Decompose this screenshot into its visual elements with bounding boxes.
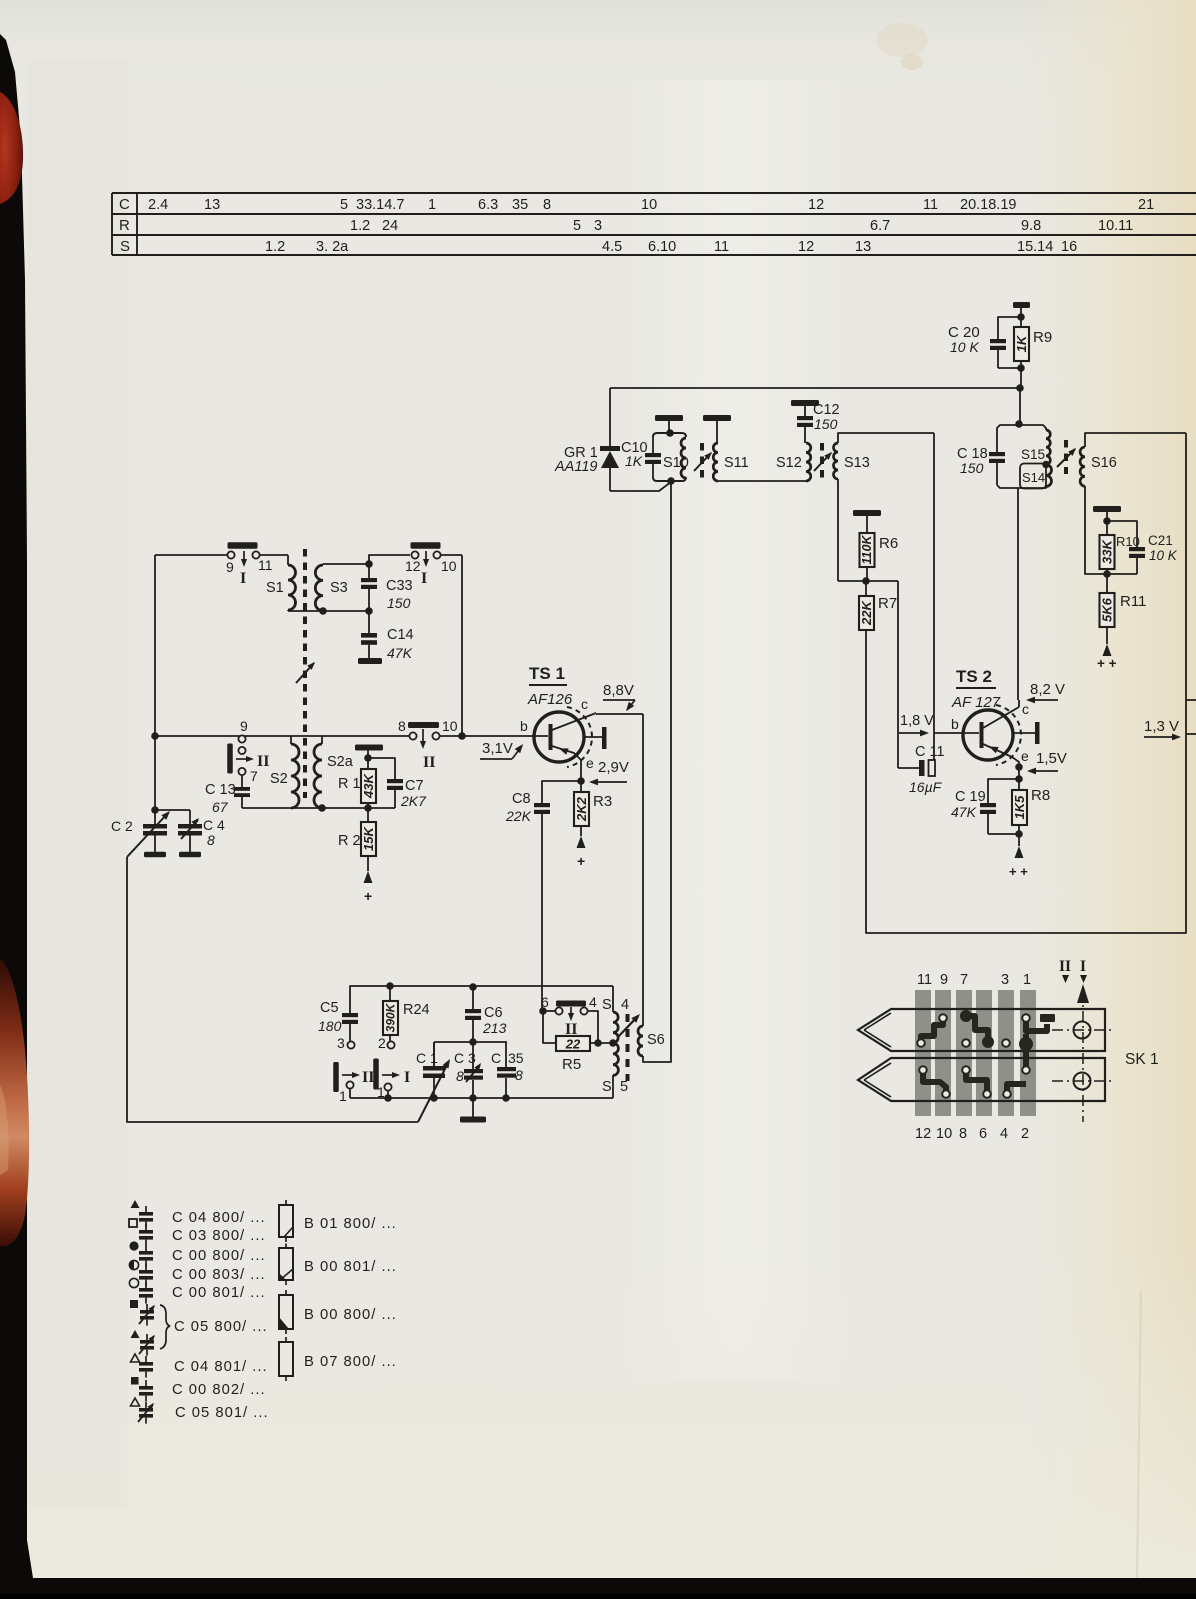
- svg-text:C 04 801/ ...: C 04 801/ ...: [174, 1359, 268, 1375]
- svg-text:C 3: C 3: [454, 1050, 476, 1066]
- svg-text:SK 1: SK 1: [1125, 1051, 1159, 1068]
- svg-text:S2: S2: [270, 771, 288, 787]
- wire S13 bottom to R6 node: [838, 479, 866, 581]
- svg-text:3: 3: [337, 1035, 345, 1051]
- svg-text:S12: S12: [776, 455, 802, 471]
- svg-text:+: +: [364, 888, 372, 904]
- SK1 pads: [917, 1014, 1030, 1098]
- svg-text:10 K: 10 K: [1149, 548, 1178, 563]
- coil S12: [776, 443, 811, 482]
- svg-text:67: 67: [212, 799, 229, 815]
- capacitor C21: [1107, 521, 1178, 574]
- svg-text:AF 127: AF 127: [951, 694, 1001, 711]
- node C3 rail: [469, 1094, 477, 1102]
- node R1 top: [364, 754, 372, 762]
- coil S4: [602, 986, 629, 1043]
- svg-text:1,3 V: 1,3 V: [1144, 718, 1179, 735]
- svg-text:C 05 801/ ...: C 05 801/ ...: [175, 1405, 269, 1421]
- terminal above R9: [1013, 302, 1030, 317]
- svg-text:B 00 800/ ...: B 00 800/ ...: [304, 1307, 397, 1323]
- node left rail mixer: [151, 732, 159, 740]
- svg-text:1K: 1K: [625, 453, 643, 469]
- svg-text:R10: R10: [1116, 534, 1140, 549]
- capacitor C18: [957, 425, 1019, 488]
- svg-text:C 4: C 4: [203, 817, 225, 833]
- wire oscillator top rail: [350, 986, 613, 1013]
- legend resistor B 07 800: [279, 1337, 397, 1381]
- capacitor C12: [791, 400, 840, 443]
- svg-text:12: 12: [405, 558, 421, 574]
- variable capacitor C2: [111, 809, 173, 858]
- coil S16: [1080, 447, 1117, 486]
- svg-text:390K: 390K: [384, 1002, 398, 1032]
- legend capacitor C 04 800: [131, 1200, 266, 1228]
- svg-text:AF126: AF126: [527, 691, 573, 708]
- svg-text:C 00 800/ ...: C 00 800/ ...: [172, 1248, 266, 1264]
- svg-text:110K: 110K: [860, 535, 874, 565]
- svg-text:C 11: C 11: [915, 744, 945, 760]
- svg-text:2: 2: [1021, 1126, 1029, 1142]
- svg-text:C: C: [119, 196, 130, 213]
- svg-text:c: c: [1022, 701, 1029, 717]
- supply + R11: [1097, 644, 1117, 671]
- svg-text:I: I: [421, 570, 427, 587]
- output stubs right edge: [1186, 700, 1196, 734]
- coil S6: [638, 1026, 665, 1056]
- wire S14 to TS2 collector: [1017, 488, 1019, 700]
- svg-text:C 05 800/ ...: C 05 800/ ...: [174, 1319, 268, 1335]
- svg-text:12: 12: [798, 239, 814, 255]
- voltage 8,2 V: [1026, 681, 1065, 703]
- voltage 1,8 V: [899, 713, 934, 736]
- svg-text:4: 4: [621, 997, 629, 1013]
- resistor R7: [859, 581, 897, 630]
- capacitor C19: [951, 779, 1019, 834]
- svg-text:9.8: 9.8: [1021, 218, 1041, 234]
- tuning core S4-S6: [618, 1012, 642, 1081]
- svg-text:20.18.19: 20.18.19: [960, 197, 1016, 213]
- svg-text:I: I: [240, 570, 246, 587]
- svg-text:1: 1: [428, 197, 436, 213]
- svg-text:S11: S11: [724, 455, 749, 471]
- svg-text:B 07 800/ ...: B 07 800/ ...: [304, 1354, 397, 1370]
- svg-text:6: 6: [541, 994, 549, 1010]
- svg-text:TS 1: TS 1: [529, 664, 565, 683]
- terminal above R1: [355, 745, 383, 759]
- svg-text:35: 35: [512, 197, 528, 213]
- svg-text:S1: S1: [266, 580, 284, 596]
- svg-text:1K: 1K: [1014, 334, 1029, 352]
- svg-text:9: 9: [240, 718, 248, 734]
- coil S11: [713, 443, 748, 482]
- legend capacitor C 04 801: [131, 1354, 268, 1378]
- svg-text:9: 9: [940, 972, 948, 988]
- svg-text:150: 150: [814, 416, 838, 432]
- wire S1-S3 bottom: [288, 610, 369, 612]
- coil S15: [1019, 425, 1050, 464]
- contact 3: [337, 1035, 355, 1051]
- wire S16 top to output: [1085, 433, 1186, 700]
- tuning core S1-S2: [296, 549, 317, 798]
- svg-text:1: 1: [1023, 972, 1031, 988]
- svg-text:c: c: [581, 696, 588, 712]
- wire S6 bottom return: [643, 481, 671, 1062]
- svg-text:II: II: [257, 753, 269, 770]
- svg-text:R8: R8: [1031, 787, 1050, 804]
- svg-text:180: 180: [318, 1018, 342, 1034]
- svg-text:4: 4: [1000, 1126, 1008, 1142]
- wire TS1 collector drop: [642, 714, 644, 1026]
- svg-text:R 2: R 2: [338, 833, 361, 849]
- svg-text:11: 11: [923, 197, 938, 213]
- svg-text:15K: 15K: [361, 825, 376, 850]
- svg-text:24: 24: [382, 218, 398, 234]
- tuning core S15-S16: [1057, 440, 1078, 474]
- svg-text:e: e: [1021, 748, 1029, 764]
- resistor R9: [1014, 317, 1052, 368]
- wire C11 feed: [898, 581, 920, 768]
- svg-text:8: 8: [543, 197, 551, 213]
- svg-text:C 2: C 2: [111, 818, 133, 834]
- svg-text:8: 8: [207, 832, 215, 848]
- svg-text:150: 150: [387, 595, 411, 611]
- svg-text:8: 8: [456, 1068, 464, 1084]
- svg-text:C: C: [491, 1050, 501, 1066]
- contact 1 right: [377, 1083, 392, 1100]
- svg-text:10: 10: [441, 558, 457, 574]
- switch bar band II: [227, 744, 269, 774]
- red fingertip top left: [0, 92, 23, 204]
- svg-text:B 00 801/ ...: B 00 801/ ...: [304, 1259, 397, 1275]
- node AVC line: [1016, 384, 1024, 424]
- contact 7: [238, 768, 258, 784]
- node S15 top: [1015, 420, 1023, 428]
- legend capacitor C 03 800: [129, 1219, 266, 1246]
- node R24 top: [386, 982, 394, 990]
- switch contacts 8-10 band II: [398, 718, 458, 771]
- transistor TS2 AF127: [951, 667, 1040, 767]
- wire gang rotor loop: [127, 857, 418, 1122]
- svg-text:22K: 22K: [859, 599, 874, 625]
- svg-text:11: 11: [917, 972, 932, 988]
- paper crease: [1137, 1290, 1141, 1580]
- svg-text:C 19: C 19: [955, 789, 986, 805]
- legend resistor B 00 801: [279, 1244, 397, 1286]
- svg-text:16: 16: [1061, 239, 1077, 255]
- wire R7 to output loop: [866, 630, 1186, 933]
- svg-text:B 01 800/ ...: B 01 800/ ...: [304, 1216, 397, 1232]
- svg-text:11: 11: [258, 557, 273, 573]
- svg-text:4: 4: [589, 994, 597, 1010]
- svg-text:3. 2a: 3. 2a: [316, 239, 349, 255]
- svg-text:8,8V: 8,8V: [603, 682, 634, 699]
- node R8 bottom: [1015, 830, 1023, 838]
- svg-text:R7: R7: [878, 595, 897, 612]
- node contact 6: [539, 1007, 547, 1015]
- svg-text:+ +: + +: [1009, 864, 1028, 879]
- supply ++ TS2: [1009, 846, 1028, 879]
- tuning core S10-S11: [694, 443, 714, 478]
- svg-text:S16: S16: [1091, 455, 1117, 471]
- switch bar osc band I: [373, 1059, 410, 1090]
- coil S1: [266, 555, 296, 611]
- svg-text:10: 10: [641, 197, 657, 213]
- node C33-C14: [365, 607, 373, 615]
- SK1 traces lower: [923, 1070, 1026, 1094]
- svg-text:+: +: [577, 853, 585, 869]
- svg-text:213: 213: [482, 1020, 507, 1036]
- legend resistor B 01 800: [279, 1200, 397, 1242]
- wire TS2 base: [934, 732, 979, 734]
- terminal above S10: [655, 415, 683, 433]
- svg-text:4.5: 4.5: [602, 239, 622, 255]
- svg-text:TS 2: TS 2: [956, 667, 992, 686]
- svg-text:33.14.7: 33.14.7: [356, 197, 404, 213]
- svg-text:10: 10: [936, 1126, 952, 1142]
- svg-text:10.11: 10.11: [1098, 218, 1133, 234]
- variable capacitor C1: [416, 1042, 453, 1122]
- capacitor C10: [621, 437, 661, 477]
- contact 9 band II: [238, 718, 248, 754]
- supply + R2: [364, 871, 373, 904]
- svg-text:15.14: 15.14: [1017, 239, 1053, 255]
- terminal below C14: [358, 658, 382, 664]
- black photo edge left: [0, 34, 33, 1578]
- node R10 top: [1103, 517, 1111, 525]
- svg-text:6.10: 6.10: [648, 239, 676, 255]
- svg-text:47K: 47K: [951, 804, 977, 820]
- svg-text:22: 22: [565, 1037, 581, 1052]
- svg-text:16µF: 16µF: [909, 779, 943, 795]
- node TS1 emitter: [577, 777, 585, 785]
- svg-text:1.2: 1.2: [350, 218, 370, 234]
- coil S2: [270, 736, 299, 808]
- resistor R8: [1012, 787, 1050, 846]
- svg-text:8: 8: [959, 1126, 967, 1142]
- node C35 rail: [502, 1094, 510, 1102]
- voltage 1,3 V: [1144, 718, 1181, 740]
- SK1 band markers: [1059, 958, 1087, 983]
- svg-text:5: 5: [340, 197, 348, 213]
- node S10 top: [666, 429, 674, 437]
- SK1 traces upper: [921, 1010, 1055, 1070]
- svg-text:C7: C7: [405, 778, 424, 794]
- svg-text:21: 21: [1138, 197, 1154, 213]
- node R10 bottom: [1103, 570, 1111, 578]
- legend capacitor C 00 801: [129, 1278, 265, 1303]
- svg-text:6.3: 6.3: [478, 197, 498, 213]
- coil S3: [315, 564, 347, 611]
- coil S2a: [314, 736, 354, 808]
- svg-text:R3: R3: [593, 793, 612, 810]
- capacitor C35: [491, 1042, 524, 1098]
- svg-text:C6: C6: [484, 1005, 503, 1021]
- legend capacitor C 05 800: [130, 1300, 268, 1356]
- resistor R3: [574, 781, 612, 836]
- svg-text:22K: 22K: [505, 808, 532, 824]
- svg-text:2K2: 2K2: [574, 796, 589, 822]
- terminal above S11: [703, 415, 731, 443]
- resistor R1: [338, 758, 376, 808]
- svg-text:1.2: 1.2: [265, 239, 285, 255]
- SK1 index holes: [1052, 984, 1113, 1122]
- wire S16 bottom: [1085, 486, 1107, 574]
- svg-text:1K5: 1K5: [1012, 795, 1027, 820]
- svg-text:II: II: [423, 754, 435, 771]
- resistor R5: [543, 1011, 613, 1073]
- diode GR1 AA119: [554, 388, 620, 491]
- capacitor C8: [505, 781, 581, 824]
- legend capacitor C 00 802: [131, 1377, 266, 1402]
- variable capacitor C4: [178, 810, 225, 857]
- legend resistor B 00 800: [279, 1290, 397, 1334]
- svg-text:47K: 47K: [387, 645, 413, 661]
- svg-text:2.4: 2.4: [148, 197, 168, 213]
- paper stain: [876, 23, 928, 57]
- capacitor C14: [361, 611, 414, 661]
- connector SK1: [915, 990, 1036, 1116]
- node R1 bottom: [364, 804, 372, 812]
- trimmer capacitor C3: [454, 1042, 483, 1098]
- svg-text:C33: C33: [386, 578, 413, 594]
- svg-text:10 K: 10 K: [950, 339, 979, 355]
- contact 1 left: [339, 1081, 354, 1104]
- wire GR1 to S10: [610, 482, 671, 491]
- capacitor C7: [368, 758, 427, 809]
- node S15-S14 tap: [1042, 461, 1050, 469]
- SK1 upper board: [858, 1009, 1105, 1051]
- node R5 right: [594, 1039, 602, 1047]
- SK1 pin numbers bottom: [915, 1126, 1029, 1142]
- switch contacts 6-4 band II: [541, 994, 598, 1042]
- transistor TS1 AF126: [520, 664, 643, 781]
- svg-text:+ +: + +: [1097, 656, 1117, 671]
- svg-text:C 13: C 13: [205, 782, 236, 798]
- wire C8 to oscillator: [541, 813, 543, 1011]
- wire osc mid rail: [434, 1042, 507, 1066]
- capacitor C5: [318, 1000, 358, 1041]
- svg-text:3,1V: 3,1V: [482, 740, 513, 757]
- svg-text:C8: C8: [512, 791, 531, 807]
- legend capacitor C 05 801: [131, 1398, 269, 1424]
- svg-text:C 03 800/ ...: C 03 800/ ...: [172, 1228, 266, 1244]
- switch bar osc band II: [333, 1062, 374, 1092]
- wire band I to base rail: [369, 555, 462, 736]
- svg-text:13: 13: [204, 197, 220, 213]
- capacitor C11 16uF: [909, 744, 945, 795]
- legend capacitor C 00 800: [129, 1241, 265, 1266]
- node C1 rail: [430, 1094, 438, 1102]
- node S10 bottom: [667, 477, 675, 485]
- node S4-S5 tap: [609, 1039, 617, 1047]
- svg-text:C 00 802/ ...: C 00 802/ ...: [172, 1382, 266, 1398]
- svg-text:b: b: [951, 716, 959, 732]
- svg-text:II: II: [362, 1069, 374, 1086]
- tuning core S12-S13: [814, 443, 834, 478]
- node R9 bottom: [1017, 364, 1025, 388]
- voltage 8,8V: [603, 682, 635, 713]
- SK1 pin numbers top: [917, 972, 1031, 988]
- svg-text:150: 150: [960, 460, 984, 476]
- black photo edge bottom: [0, 1578, 1196, 1594]
- svg-text:R24: R24: [403, 1002, 430, 1018]
- voltage 2,9V: [589, 759, 629, 785]
- svg-text:11: 11: [714, 239, 729, 255]
- svg-text:7: 7: [250, 768, 258, 784]
- wire S13 top to TS2 base drop: [838, 433, 934, 768]
- supply + R3: [577, 836, 586, 869]
- svg-text:I: I: [404, 1069, 410, 1086]
- red finger lower left: [0, 958, 29, 1246]
- svg-text:10: 10: [442, 718, 458, 734]
- svg-text:6.7: 6.7: [870, 218, 890, 234]
- wire top left rail: [155, 555, 288, 736]
- switch contacts 9-11 band I: [226, 542, 273, 587]
- svg-text:R5: R5: [562, 1056, 581, 1073]
- node C6 top: [469, 983, 477, 991]
- wire S3 top: [323, 563, 369, 565]
- wire oscillator bottom rail: [350, 1097, 613, 1099]
- capacitor C6: [465, 987, 507, 1042]
- resistor R2: [338, 808, 376, 871]
- svg-text:3: 3: [594, 218, 602, 234]
- svg-text:2K7: 2K7: [400, 793, 427, 809]
- node C19 top: [1015, 767, 1023, 790]
- svg-text:33K: 33K: [1100, 538, 1115, 563]
- capacitor C20: [948, 317, 1021, 368]
- svg-text:S15: S15: [1021, 447, 1045, 462]
- node R9 top: [1017, 313, 1025, 321]
- node TS1 base feed: [458, 732, 466, 740]
- svg-text:1: 1: [339, 1088, 347, 1104]
- svg-text:8,2 V: 8,2 V: [1030, 681, 1065, 698]
- svg-text:b: b: [520, 718, 528, 734]
- svg-text:7: 7: [960, 972, 968, 988]
- label SK 1: [1125, 1051, 1159, 1068]
- svg-text:II: II: [1059, 958, 1071, 975]
- svg-text:S14: S14: [1022, 470, 1045, 485]
- svg-text:e: e: [586, 755, 594, 771]
- node R6-R7: [862, 577, 898, 585]
- voltage 3,1V: [480, 740, 526, 759]
- svg-text:43K: 43K: [361, 772, 376, 798]
- terminal above R10: [1093, 506, 1121, 521]
- coil S14: [1019, 464, 1052, 489]
- capacitor C33: [361, 564, 413, 611]
- svg-text:9: 9: [226, 559, 234, 575]
- coil S5: [602, 1043, 628, 1098]
- node S3 bottom: [319, 607, 327, 615]
- terminal above R6: [853, 510, 881, 533]
- svg-text:S10: S10: [663, 455, 689, 471]
- terminal below C3: [460, 1098, 486, 1123]
- svg-text:S: S: [602, 1079, 612, 1095]
- svg-text:S6: S6: [647, 1032, 665, 1048]
- wire mixer rail: [155, 735, 548, 737]
- svg-text:5K6: 5K6: [1100, 597, 1115, 622]
- node S2a bottom: [318, 804, 326, 812]
- resistor R6: [860, 533, 899, 581]
- svg-text:1,5V: 1,5V: [1036, 750, 1067, 767]
- coil S13: [834, 443, 870, 479]
- svg-text:35: 35: [508, 1050, 524, 1066]
- SK1 lower board: [858, 1058, 1105, 1101]
- svg-text:12: 12: [808, 197, 824, 213]
- svg-text:R 1: R 1: [338, 776, 361, 792]
- svg-text:5: 5: [573, 218, 581, 234]
- svg-text:S13: S13: [844, 455, 870, 471]
- svg-text:R11: R11: [1120, 593, 1146, 610]
